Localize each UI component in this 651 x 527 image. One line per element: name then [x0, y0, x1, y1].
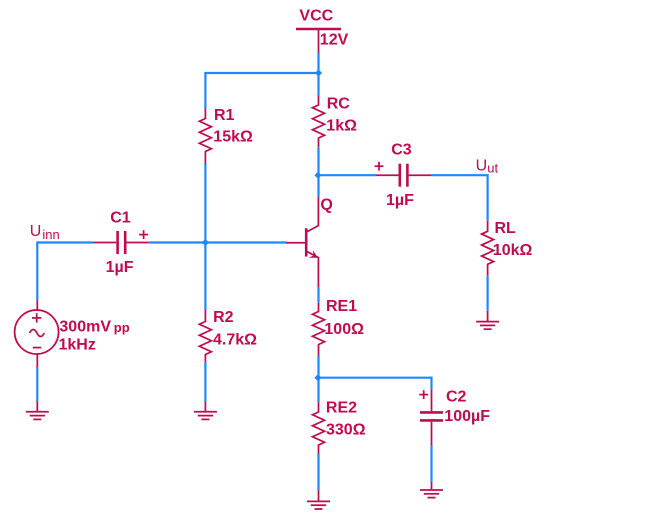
wire base node to transistor base	[205, 241, 286, 243]
wire emitter node to RE2	[317, 378, 319, 403]
wire emitter node to C2	[319, 377, 432, 379]
wire source bottom to ground	[36, 367, 38, 401]
wire input to C1	[37, 241, 93, 243]
svg-text:Q: Q	[320, 197, 332, 214]
junction collector node	[314, 172, 321, 179]
svg-text:U: U	[30, 223, 42, 240]
capacitor C1 1uF	[93, 209, 149, 276]
power VCC 12V	[296, 7, 349, 52]
wire collector node to C3	[319, 174, 377, 176]
svg-text:330Ω: 330Ω	[326, 422, 366, 439]
wire C2 top	[430, 377, 432, 390]
svg-text:10kΩ: 10kΩ	[493, 242, 533, 259]
svg-text:4.7kΩ: 4.7kΩ	[213, 332, 257, 349]
wire RL bottom to ground	[487, 275, 489, 310]
svg-text:1kHz: 1kHz	[59, 337, 96, 354]
capacitor C2 100uF	[419, 388, 490, 445]
svg-text:12V: 12V	[320, 31, 349, 48]
wire C2 bottom to ground	[430, 446, 432, 482]
resistor RC 1k	[313, 95, 358, 147]
svg-text:ut: ut	[487, 161, 498, 176]
source V1 300mVpp 1kHz	[15, 301, 130, 368]
wire VCC stub to top rail	[317, 52, 319, 74]
wire C1 to base node	[149, 241, 206, 243]
svg-text:R2: R2	[213, 309, 234, 326]
transistor Q NPN	[286, 197, 333, 287]
svg-text:100Ω: 100Ω	[324, 321, 364, 338]
node Uut output label	[476, 158, 499, 176]
wire RC top	[317, 73, 319, 95]
svg-text:RL: RL	[495, 220, 517, 237]
svg-text:100µF: 100µF	[444, 408, 490, 425]
svg-text:inn: inn	[42, 227, 59, 242]
svg-text:1µF: 1µF	[386, 192, 414, 209]
ground (C2)	[420, 482, 443, 498]
wire R1 bottom to base node	[204, 164, 206, 243]
wire C3 to output corner	[432, 174, 488, 176]
resistor R1 15k	[199, 107, 253, 164]
ground (R2)	[194, 401, 217, 419]
ground (RL)	[476, 311, 499, 330]
wire RC bottom to collector	[317, 147, 319, 197]
svg-text:R1: R1	[214, 107, 235, 124]
wire R1 top	[204, 73, 206, 109]
wire output corner down to RL	[487, 174, 489, 221]
svg-text:pp: pp	[114, 320, 130, 335]
svg-text:1kΩ: 1kΩ	[326, 117, 357, 134]
wire R2 bottom to ground	[204, 361, 206, 401]
svg-text:RE1: RE1	[326, 298, 357, 315]
svg-text:C2: C2	[446, 388, 467, 405]
resistor R2 4.7k	[199, 309, 257, 361]
wire RE1 bottom to emitter node	[317, 356, 319, 378]
svg-text:1µF: 1µF	[106, 259, 134, 276]
ground (source)	[26, 401, 49, 420]
svg-text:RC: RC	[327, 95, 351, 112]
junction base node	[202, 239, 209, 246]
resistor RL 10k	[482, 220, 533, 276]
ground (RE2)	[307, 490, 330, 509]
capacitor C3 1uF	[375, 141, 432, 209]
wire input corner down to source	[36, 241, 38, 300]
svg-text:15kΩ: 15kΩ	[213, 129, 253, 146]
junction VCC node	[315, 69, 322, 76]
resistor RE2 330	[313, 400, 366, 454]
svg-text:C3: C3	[391, 141, 412, 158]
junction emitter divider node	[314, 374, 321, 381]
resistor RE1 100	[313, 298, 365, 356]
svg-text:VCC: VCC	[299, 7, 333, 24]
wire emitter to RE1	[317, 287, 319, 303]
svg-text:U: U	[476, 158, 488, 175]
svg-text:RE2: RE2	[326, 400, 357, 417]
wire RE2 bottom to ground	[317, 454, 319, 490]
svg-text:C1: C1	[110, 209, 131, 226]
node Uinn input label	[30, 223, 60, 242]
wire R2 top	[204, 243, 206, 311]
svg-text:300mV: 300mV	[59, 319, 111, 336]
wire top horizontal rail to R1	[204, 72, 318, 74]
